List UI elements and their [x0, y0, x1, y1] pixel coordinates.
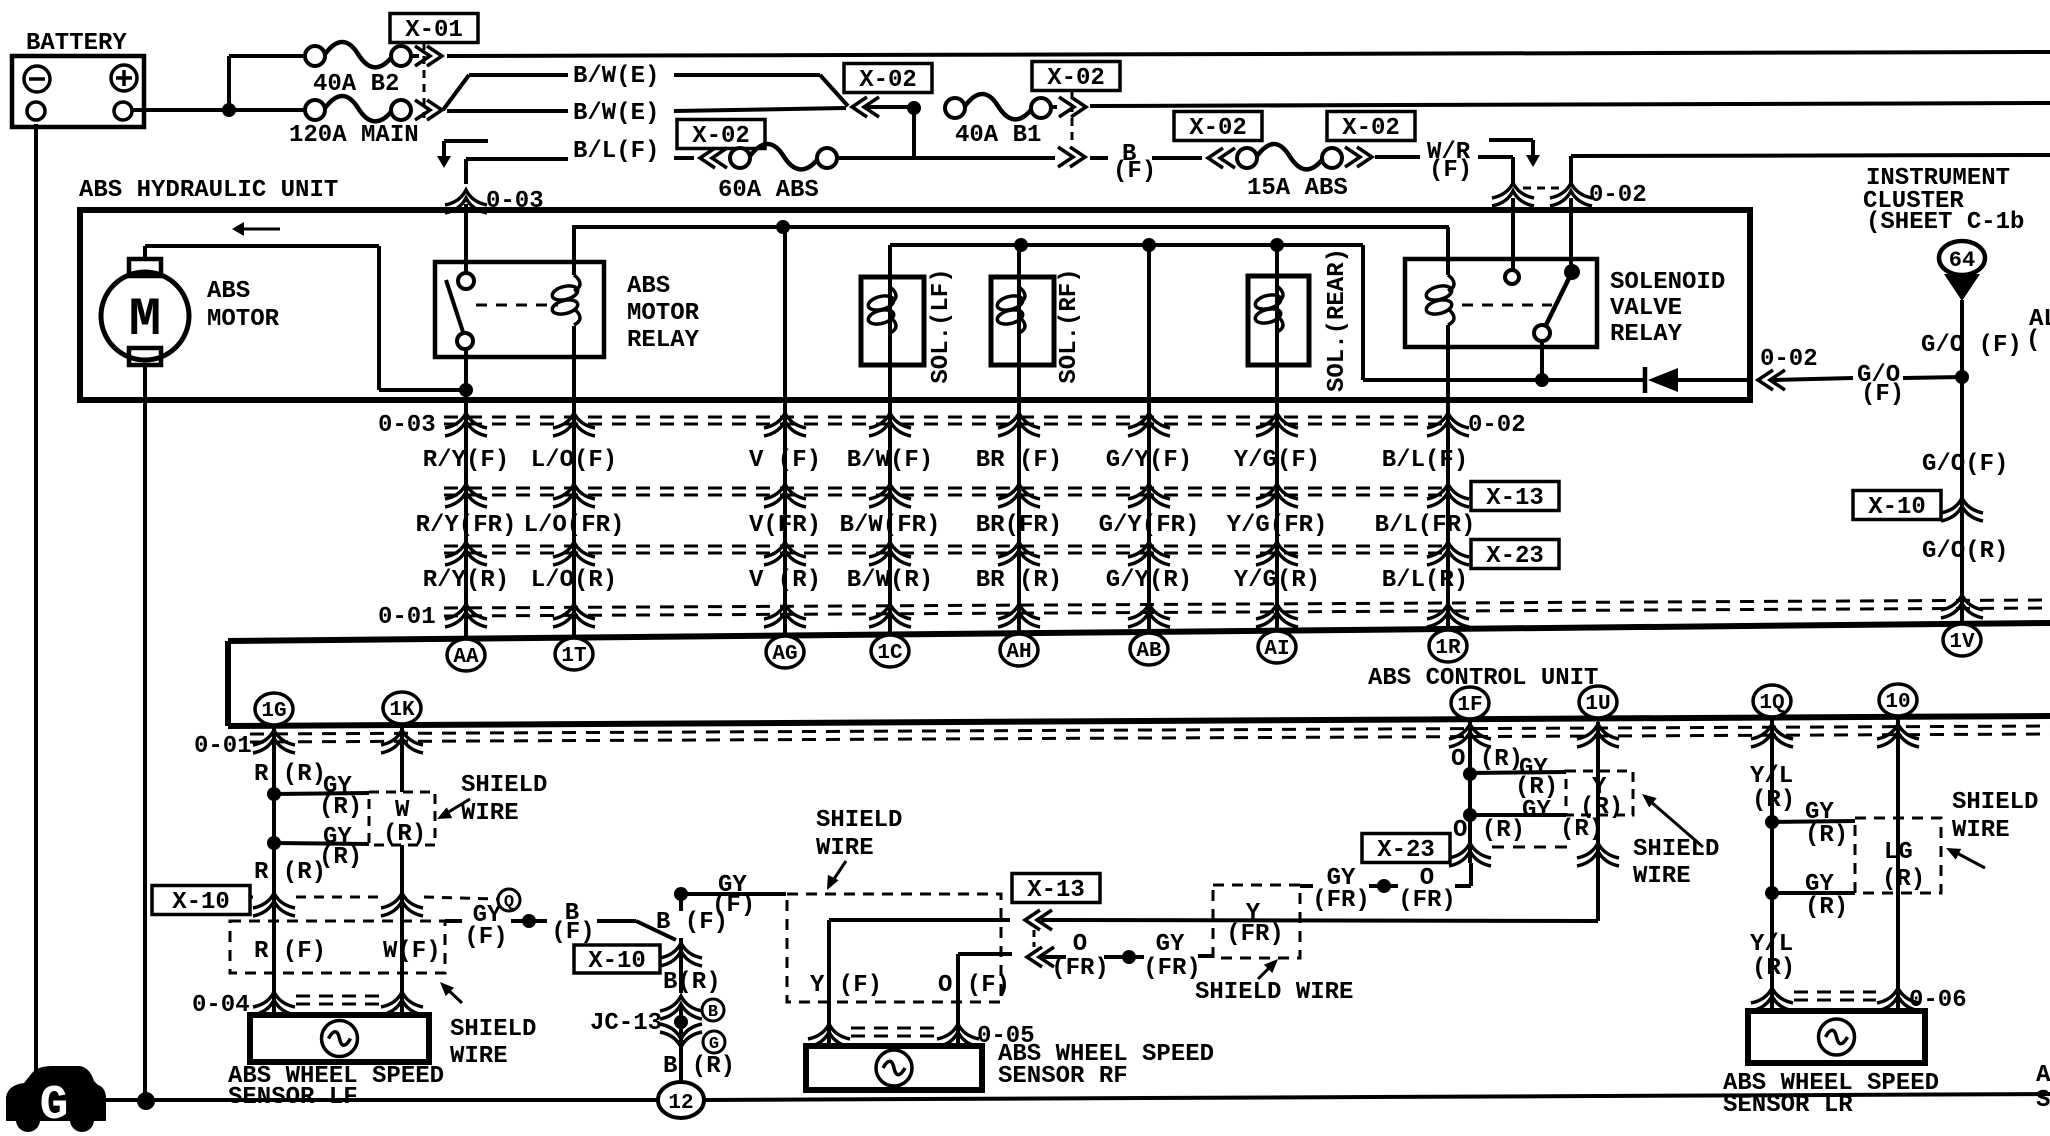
svg-text:V (F): V (F) — [749, 447, 821, 474]
junction node 1Q b — [1765, 886, 1855, 900]
svg-text:X-02: X-02 — [1342, 115, 1400, 142]
label O (R) b — [1453, 817, 1525, 844]
svg-text:SOL.(REAR): SOL.(REAR) — [1324, 248, 1351, 392]
svg-text:BR (R): BR (R) — [976, 567, 1062, 594]
wire row1 long — [447, 52, 2050, 56]
shield wire box Y(R) — [1566, 771, 1633, 821]
connector 0-04 — [192, 992, 423, 1019]
svg-text:X-02: X-02 — [859, 67, 917, 94]
svg-text:JC-13: JC-13 — [590, 1010, 662, 1037]
svg-text:AB: AB — [2036, 1062, 2050, 1089]
svg-text:Y/L: Y/L — [1750, 931, 1793, 958]
relay ABS motor relay box — [435, 262, 700, 357]
label G/O(R) — [1922, 538, 2008, 565]
wire AH column — [1017, 245, 1021, 637]
label R (R) a — [254, 761, 326, 788]
svg-text:B (F): B (F) — [656, 909, 728, 936]
svg-text:ABS: ABS — [627, 273, 670, 300]
junction node 1F b — [1463, 808, 1566, 822]
fuse 40A B1 — [945, 94, 1051, 149]
junction node sv relay out — [1535, 373, 1549, 387]
sensor LR — [1748, 1011, 1925, 1063]
label G/O (F) upper — [1921, 332, 2022, 359]
svg-text:1K: 1K — [389, 699, 415, 722]
wire Y(F) — [829, 920, 1010, 1046]
svg-text:L/O(R): L/O(R) — [531, 567, 617, 594]
wire motor top loop — [145, 246, 460, 390]
svg-text:0-03: 0-03 — [486, 188, 544, 215]
svg-text:WIRE: WIRE — [1952, 817, 2010, 844]
svg-text:AI: AI — [1264, 638, 1289, 661]
wire B/L corner — [464, 159, 468, 184]
svg-text:B/L(FR): B/L(FR) — [1375, 512, 1476, 539]
solenoid valve relay pins — [1505, 264, 1580, 341]
shield wire label d — [1946, 789, 2038, 868]
svg-text:1V: 1V — [1949, 631, 1975, 654]
wire GY-B jumper — [445, 900, 676, 951]
svg-text:R (F): R (F) — [254, 938, 326, 965]
motor M — [101, 259, 280, 365]
svg-text:B/L(F): B/L(F) — [573, 138, 659, 165]
svg-text:B(R): B(R) — [663, 969, 721, 996]
diode — [1645, 367, 1750, 393]
wire 1F column — [1468, 722, 1472, 863]
svg-text:0-04: 0-04 — [192, 992, 250, 1019]
arrow continuation right — [1489, 140, 1540, 167]
svg-text:SHIELD: SHIELD — [461, 772, 547, 799]
junction node battery feed — [222, 56, 236, 117]
wire B (F) — [1090, 141, 1202, 185]
svg-text:(R): (R) — [319, 794, 362, 821]
junction node 1G a — [267, 787, 369, 801]
svg-text:120A MAIN: 120A MAIN — [289, 122, 419, 149]
wire Y(FR) long — [1041, 920, 1598, 921]
svg-text:40A B1: 40A B1 — [955, 122, 1041, 149]
connector X-10 right — [1853, 491, 1983, 522]
wire AI column — [1275, 245, 1279, 637]
svg-text:X-10: X-10 — [172, 889, 230, 916]
svg-text:ABS CONTROL UNIT: ABS CONTROL UNIT — [1368, 665, 1598, 692]
svg-text:0-01: 0-01 — [194, 733, 252, 760]
svg-text:SHIELD: SHIELD — [816, 807, 902, 834]
fuse 15A ABS — [1237, 144, 1348, 202]
junction node 1Q a — [1765, 815, 1855, 829]
svg-text:SOLENOID: SOLENOID — [1610, 269, 1725, 296]
label GY (F) jc — [712, 872, 755, 919]
svg-text:SENSOR RF: SENSOR RF — [998, 1063, 1128, 1090]
connector X-02 a — [844, 64, 932, 118]
svg-text:B/W(F): B/W(F) — [847, 447, 933, 474]
control unit top pins — [447, 624, 1981, 671]
svg-text:(FR): (FR) — [1312, 887, 1370, 914]
svg-text:X-13: X-13 — [1027, 877, 1085, 904]
connector row 0-01 lower — [194, 724, 2050, 760]
label Y/L (R) b — [1750, 931, 1795, 982]
svg-text:X-23: X-23 — [1486, 543, 1544, 570]
shield wire label rf top — [816, 807, 902, 890]
svg-text:X-01: X-01 — [405, 17, 463, 44]
pin Q — [498, 889, 520, 912]
solenoid valve relay coil — [1425, 227, 1454, 325]
svg-text:(F): (F) — [1861, 381, 1904, 408]
svg-text:(R): (R) — [1882, 866, 1925, 893]
svg-text:1U: 1U — [1585, 693, 1610, 716]
connector X-02 d — [1174, 112, 1262, 169]
svg-text:X-13: X-13 — [1486, 485, 1544, 512]
battery — [12, 30, 144, 127]
cluster pin 64 — [1939, 241, 1985, 275]
label GY (R) d — [1522, 797, 1603, 843]
wire 10 column — [1896, 719, 1900, 1011]
shield wire label c — [1633, 794, 1719, 890]
solenoid valve relay dashed link — [1462, 304, 1552, 307]
svg-text:1R: 1R — [1435, 637, 1461, 660]
wire G/O column — [1960, 300, 1964, 622]
connector X-10 jc — [574, 943, 702, 975]
connector X-01 — [390, 14, 478, 121]
svg-text:0-02: 0-02 — [1589, 182, 1647, 209]
svg-text:M: M — [129, 290, 161, 351]
svg-text:O (R): O (R) — [1453, 817, 1525, 844]
svg-text:1F: 1F — [1457, 694, 1482, 717]
svg-text:( S: ( S — [2026, 327, 2050, 354]
svg-text:AG: AG — [772, 643, 797, 666]
svg-text:SENSOR LF: SENSOR LF — [228, 1084, 358, 1111]
fuse 60A ABS — [718, 144, 837, 204]
connector 0-05 — [808, 1023, 1035, 1050]
svg-text:X-23: X-23 — [1377, 837, 1435, 864]
ground bus — [105, 1094, 2050, 1100]
svg-text:Y/G(F): Y/G(F) — [1234, 447, 1320, 474]
control unit bottom pins — [255, 684, 1917, 725]
svg-text:60A ABS: 60A ABS — [718, 177, 819, 204]
wire 60A to junction — [837, 156, 1055, 160]
fuse 120A MAIN — [289, 96, 419, 149]
svg-text:B: B — [708, 1003, 718, 1022]
svg-text:AB: AB — [1136, 640, 1162, 663]
ground car body — [6, 1066, 106, 1133]
svg-text:WIRE: WIRE — [450, 1043, 508, 1070]
wire JC column upper — [656, 894, 728, 993]
svg-text:B/L(F): B/L(F) — [1382, 447, 1468, 474]
shield wire label mid — [1195, 959, 1353, 1006]
wire row3 long — [1571, 155, 2050, 266]
shield wire box W(R) — [369, 792, 435, 848]
wire y380 — [1363, 378, 1645, 382]
label G/O(F) — [1922, 451, 2008, 478]
wire O(F) — [958, 954, 1012, 1046]
svg-text:WIRE: WIRE — [816, 835, 874, 862]
arrow continuation left — [437, 141, 488, 168]
svg-text:B/W(E): B/W(E) — [573, 100, 659, 127]
svg-text:10: 10 — [1885, 691, 1910, 714]
svg-text:Y/L: Y/L — [1750, 763, 1793, 790]
svg-text:0-03: 0-03 — [378, 412, 436, 439]
svg-text:SOL.(LF): SOL.(LF) — [928, 268, 955, 383]
svg-text:G/Y(F): G/Y(F) — [1106, 447, 1192, 474]
solenoid SOL.(RF) — [991, 268, 1083, 383]
wire 1U column — [1596, 722, 1600, 921]
svg-text:SE: SE — [2036, 1087, 2050, 1114]
labels wire row R — [423, 567, 1468, 594]
solenoid bus — [890, 238, 1363, 252]
pin 12 — [658, 1082, 704, 1118]
svg-text:VALVE: VALVE — [1610, 295, 1682, 322]
wire B/W(E) upper — [443, 63, 848, 110]
svg-text:12: 12 — [668, 1092, 693, 1115]
svg-text:RELAY: RELAY — [1610, 321, 1683, 348]
svg-text:G: G — [709, 1035, 719, 1054]
svg-text:(F): (F) — [551, 919, 594, 946]
connector 0-06 — [1751, 987, 1967, 1014]
svg-text:(R): (R) — [383, 821, 426, 848]
svg-text:R/Y(FR): R/Y(FR) — [416, 512, 517, 539]
wire 1C column — [888, 245, 892, 637]
junction node 1F a — [1463, 767, 1566, 781]
svg-text:GY: GY — [1156, 931, 1185, 958]
svg-text:(FR): (FR) — [1226, 921, 1284, 948]
labels wire row F — [423, 447, 1468, 474]
svg-text:BATTERY: BATTERY — [26, 30, 127, 57]
connector 0-02 top — [1492, 182, 1647, 209]
svg-text:AH: AH — [1006, 641, 1031, 664]
wire relay sw top — [464, 204, 468, 274]
wire coil top corner — [572, 227, 576, 275]
junction node ground — [137, 1092, 155, 1110]
instrument cluster label — [1863, 165, 2024, 236]
svg-text:Y/G(R): Y/G(R) — [1234, 567, 1320, 594]
svg-text:B/W(E): B/W(E) — [573, 63, 659, 90]
svg-text:W: W — [395, 797, 410, 824]
svg-text:(R): (R) — [1752, 955, 1795, 982]
svg-text:(R): (R) — [1805, 822, 1848, 849]
label GY (R) f — [1805, 871, 1848, 921]
wire after fuse B2 — [411, 54, 419, 58]
label Y/L (R) a — [1750, 763, 1795, 814]
wire G/O (F) feed — [1772, 362, 1962, 408]
connector row X-23 — [444, 540, 1559, 571]
label R (R) b — [254, 859, 326, 886]
connector X-10 left — [152, 886, 497, 917]
svg-text:1C: 1C — [877, 642, 903, 665]
svg-text:1Q: 1Q — [1759, 692, 1784, 715]
connector row 0-01 upper — [378, 595, 2050, 631]
svg-text:G/Y(R): G/Y(R) — [1106, 567, 1192, 594]
label GY (R) b — [319, 824, 362, 871]
svg-text:G/Y(FR): G/Y(FR) — [1099, 512, 1200, 539]
wire 1G column — [272, 724, 276, 1015]
svg-text:G/O(R): G/O(R) — [1922, 538, 2008, 565]
svg-text:R (R): R (R) — [254, 761, 326, 788]
wire 40A B1 out — [1051, 105, 1057, 109]
svg-text:0-02: 0-02 — [1760, 346, 1818, 373]
wire V column — [783, 227, 787, 637]
svg-text:Y/G(FR): Y/G(FR) — [1227, 512, 1328, 539]
svg-text:15A ABS: 15A ABS — [1247, 175, 1348, 202]
wire battery ground — [34, 124, 38, 1078]
svg-text:SHIELD: SHIELD — [450, 1016, 536, 1043]
svg-text:GY: GY — [1522, 797, 1551, 824]
svg-text:W(F): W(F) — [383, 938, 441, 965]
connector X-23 mid — [1362, 834, 1619, 867]
svg-text:0-01: 0-01 — [378, 604, 436, 631]
shield wire box RF — [787, 894, 1010, 1002]
svg-text:MOTOR: MOTOR — [627, 300, 700, 327]
svg-text:R (R): R (R) — [254, 859, 326, 886]
junction node V col — [776, 220, 790, 234]
wire B/L(F) label segment — [466, 138, 694, 165]
shield wire box LG(R) — [1855, 818, 1941, 893]
junction node B/W — [907, 101, 921, 157]
wire 120A to X-01 — [229, 108, 305, 112]
svg-text:G/O (F): G/O (F) — [1921, 332, 2022, 359]
connector X-02 c — [677, 120, 765, 169]
svg-text:MOTOR: MOTOR — [207, 306, 280, 333]
label sensor LF — [228, 1063, 444, 1111]
label B (R) b — [663, 1053, 735, 1080]
junction node 1G b — [267, 836, 369, 850]
svg-text:1T: 1T — [561, 645, 586, 668]
wire battery to junction — [132, 108, 229, 112]
svg-text:G: G — [40, 1079, 69, 1133]
connector X-02 e — [1327, 112, 1415, 168]
svg-text:G/O(F): G/O(F) — [1922, 451, 2008, 478]
wire W/R (F) — [1375, 139, 1513, 184]
solenoid SOL.(REAR) — [1248, 248, 1351, 392]
svg-text:1G: 1G — [261, 700, 286, 723]
svg-text:ABS HYDRAULIC UNIT: ABS HYDRAULIC UNIT — [79, 177, 338, 204]
wire 1K column — [400, 723, 404, 1015]
svg-text:X-10: X-10 — [588, 948, 646, 975]
wire 1T column — [572, 326, 576, 637]
svg-text:WIRE: WIRE — [1633, 863, 1691, 890]
wire W/R drop — [1511, 157, 1515, 271]
wire 1Q column — [1770, 720, 1774, 1011]
svg-text:O (F): O (F) — [938, 972, 1010, 999]
relay coil — [551, 275, 580, 325]
svg-text:L/O(FR): L/O(FR) — [524, 512, 625, 539]
connector X-02 b — [1032, 62, 1120, 168]
wire row2 long — [1090, 103, 2050, 106]
junction node G/O — [1955, 370, 1969, 384]
shield wire box LF — [230, 921, 445, 973]
label AL partial — [2026, 306, 2050, 354]
svg-text:B/W(FR): B/W(FR) — [840, 512, 941, 539]
relay dashed link — [476, 304, 558, 307]
arrow inside box — [232, 222, 280, 236]
svg-text:SHIELD WIRE: SHIELD WIRE — [1195, 979, 1353, 1006]
wire switch to y380 — [1540, 341, 1544, 380]
connector JC-13 — [590, 996, 725, 1054]
label sensor RF — [998, 1041, 1214, 1090]
svg-text:WIRE: WIRE — [461, 800, 519, 827]
svg-text:X-10: X-10 — [1868, 494, 1926, 521]
fuse 40A B2 — [305, 42, 411, 98]
svg-text:(R): (R) — [1752, 787, 1795, 814]
svg-text:X-02: X-02 — [1189, 115, 1247, 142]
wire B/W(E) lower — [447, 100, 846, 127]
connector row X-13 — [444, 482, 1559, 513]
svg-text:64: 64 — [1949, 248, 1975, 273]
ABS hydraulic unit box — [79, 177, 1750, 400]
svg-text:LG: LG — [1884, 839, 1913, 866]
sensor LF — [250, 1015, 429, 1062]
junction node JC top — [674, 887, 786, 901]
label O (R) a — [1451, 746, 1523, 773]
svg-text:X-02: X-02 — [1047, 65, 1105, 92]
svg-text:BR(FR): BR(FR) — [976, 512, 1062, 539]
svg-text:SHIELD: SHIELD — [1633, 836, 1719, 863]
shield wire label b — [440, 982, 536, 1070]
labels wire row FR — [416, 512, 1476, 539]
svg-text:(F): (F) — [1429, 157, 1472, 184]
svg-text:O (R): O (R) — [1451, 746, 1523, 773]
svg-text:BR (F): BR (F) — [976, 447, 1062, 474]
svg-text:Y (F): Y (F) — [810, 972, 882, 999]
svg-text:B/L(R): B/L(R) — [1382, 567, 1468, 594]
connector 0-02 right — [1758, 346, 1818, 390]
wire motor ground — [143, 365, 147, 1101]
relay solenoid valve box — [1405, 259, 1725, 348]
svg-text:AA: AA — [453, 646, 479, 669]
svg-text:O: O — [1073, 931, 1087, 958]
svg-text:V(FR): V(FR) — [749, 512, 821, 539]
wire O(FR) jumper — [1041, 931, 1213, 982]
wire AB column — [1147, 245, 1151, 637]
svg-text:ABS: ABS — [207, 278, 250, 305]
svg-text:(F): (F) — [1113, 158, 1156, 185]
label B(R) a — [663, 969, 721, 996]
svg-text:B/W(R): B/W(R) — [847, 567, 933, 594]
wire 1R column — [1446, 325, 1450, 637]
svg-text:R/Y(R): R/Y(R) — [423, 567, 509, 594]
shield wire label a — [437, 772, 547, 827]
wire GY-O jumper b — [1300, 863, 1471, 914]
label GY (R) a — [319, 773, 362, 821]
svg-text:Q: Q — [504, 893, 514, 912]
label GY (R) e — [1805, 799, 1848, 849]
wire AA column — [464, 349, 468, 637]
cluster arrow — [1944, 274, 1980, 301]
svg-text:R/Y(F): R/Y(F) — [423, 447, 509, 474]
svg-text:X-02: X-02 — [692, 123, 750, 150]
label sensor RR partial — [2036, 1062, 2050, 1114]
wire bus right corner — [1361, 245, 1365, 380]
svg-text:(FR): (FR) — [1398, 887, 1456, 914]
wire row1 to fuse — [229, 54, 305, 58]
svg-text:V (R): V (R) — [749, 567, 821, 594]
svg-text:SHIELD: SHIELD — [1952, 789, 2038, 816]
connector 0-03 top — [445, 188, 544, 215]
svg-text:40A B2: 40A B2 — [313, 71, 399, 98]
svg-text:(SHEET C-1b: (SHEET C-1b — [1866, 209, 2024, 236]
wire to 40A B1 — [866, 105, 914, 109]
junction node motor relay out — [459, 383, 473, 397]
svg-text:SOL.(RF): SOL.(RF) — [1056, 268, 1083, 383]
svg-text:L/O(F): L/O(F) — [531, 447, 617, 474]
inner bus — [572, 225, 1449, 229]
relay switch — [446, 273, 474, 349]
svg-text:RELAY: RELAY — [627, 327, 700, 354]
wire JC column lower — [679, 1004, 683, 1082]
label GY (R) c — [1515, 755, 1558, 801]
connector X-13 mid — [1012, 874, 1100, 968]
sensor RF — [806, 1046, 982, 1090]
svg-text:(FR): (FR) — [1051, 955, 1109, 982]
svg-text:(F): (F) — [464, 924, 507, 951]
svg-text:0-02: 0-02 — [1468, 412, 1526, 439]
svg-text:B (R): B (R) — [663, 1053, 735, 1080]
